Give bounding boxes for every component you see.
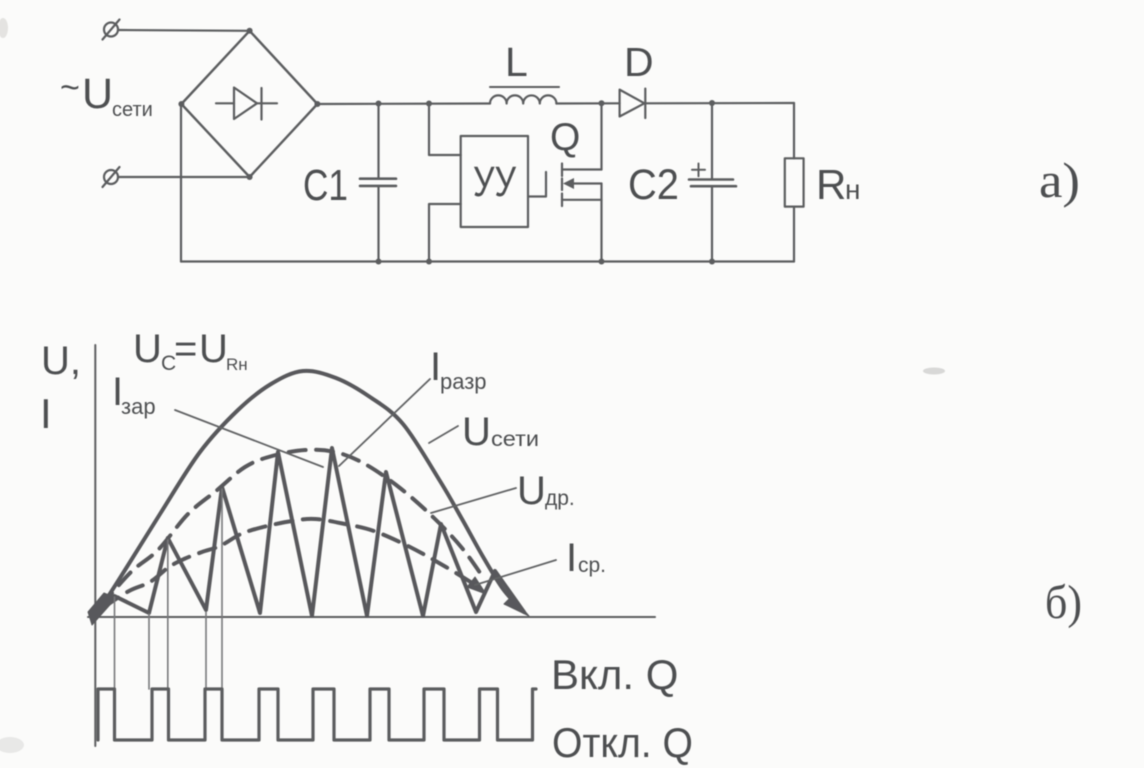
svg-text:U: U (517, 469, 546, 513)
circuit labels (60, 39, 1080, 210)
leader lines (175, 379, 556, 585)
wire right drop to Rn (793, 103, 795, 158)
thin timing lines (115, 489, 223, 689)
timing line t3 (167, 540, 169, 689)
svg-text:C1: C1 (303, 161, 348, 210)
timing line t2 (148, 614, 150, 689)
svg-text:Откл. Q: Откл. Q (552, 719, 693, 766)
curve Uдр dashed (101, 450, 485, 606)
axis t (88, 616, 655, 618)
wire Q source to bottom rail (600, 184, 602, 262)
node bridge top (247, 28, 253, 34)
svg-text:L: L (505, 39, 528, 85)
wire UU lower input (429, 204, 461, 262)
node Q drain rail (599, 100, 605, 106)
svg-text:U: U (199, 327, 228, 371)
leader Iср (475, 560, 556, 585)
node C1 top (376, 101, 382, 107)
node UU top rail (426, 101, 432, 107)
svg-text:C2: C2 (628, 161, 679, 209)
svg-text:Rн: Rн (226, 355, 248, 374)
timing line t4 (205, 612, 207, 689)
control unit UU box (461, 136, 528, 227)
wire UU gate output (528, 172, 546, 197)
wire Q drain to rail (600, 103, 602, 169)
square wave Q gate (98, 689, 536, 740)
inductor L core bar (490, 86, 559, 88)
inductor L coil (490, 95, 556, 103)
diode inside bridge (216, 88, 277, 120)
scan noise marks (0, 18, 945, 753)
wire top rail segment 3 (645, 102, 794, 105)
capacitor C2 (689, 103, 736, 262)
arrowhead envelope start (88, 593, 116, 625)
wire bottom input to bridge (118, 176, 250, 178)
svg-text:I: I (566, 536, 577, 580)
svg-text:а): а) (1039, 152, 1080, 208)
svg-text:др.: др. (545, 487, 575, 510)
timing line t5 (221, 489, 223, 689)
svg-text:I: I (40, 390, 52, 437)
terminal input bottom (103, 167, 120, 187)
wire bridge left leg down (180, 104, 182, 262)
wire bottom rail (181, 260, 794, 262)
wire UU upper input (429, 104, 461, 156)
node C1 bottom (376, 259, 382, 265)
leader Uсети (429, 426, 458, 443)
wire top input to bridge (118, 29, 250, 32)
svg-text:~: ~ (60, 69, 80, 107)
svg-text:Вкл. Q: Вкл. Q (551, 651, 678, 698)
svg-text:Q: Q (550, 116, 580, 159)
node UU bottom rail (426, 259, 432, 265)
wire top rail segment 2 (556, 102, 619, 104)
svg-text:сети: сети (112, 99, 153, 121)
svg-text:U,: U, (41, 339, 81, 383)
node bridge right (314, 101, 320, 107)
svg-text:U: U (462, 410, 491, 454)
svg-text:УУ: УУ (473, 158, 517, 206)
svg-text:н: н (845, 174, 860, 205)
curve Uсети envelope (97, 371, 522, 614)
svg-text:=: = (174, 327, 197, 371)
terminal input top (103, 20, 120, 40)
leader Uдр (431, 488, 516, 513)
svg-text:U: U (133, 327, 162, 371)
resistor Rn body (785, 158, 804, 206)
wire Rn to bottom rail (793, 207, 795, 262)
graph labels (40, 327, 1082, 766)
svg-text:б): б) (1045, 576, 1082, 629)
node bridge bottom (247, 174, 253, 180)
arrowhead envelope end (504, 596, 529, 616)
timing line t1 (114, 597, 116, 689)
arrowhead Iср end (467, 577, 486, 594)
curve Iср dashed (104, 519, 477, 607)
bridge rectifier VD (181, 31, 317, 177)
axis Y (94, 345, 96, 746)
svg-text:сети: сети (491, 428, 539, 451)
svg-text:ср.: ср. (578, 554, 606, 577)
svg-text:R: R (816, 161, 846, 208)
svg-text:D: D (624, 39, 654, 85)
transistor Q mosfet (562, 164, 602, 207)
node C2 top (709, 100, 715, 106)
node Q source rail (599, 259, 605, 265)
svg-text:U: U (82, 70, 113, 118)
sawtooth inductor current (97, 448, 524, 616)
wire top rail segment 1 (317, 102, 490, 105)
leader Iразр (339, 379, 430, 466)
leader Iзар (175, 410, 323, 467)
capacitor C1 (360, 104, 396, 262)
node C2 bottom (709, 259, 715, 265)
svg-text:разр: разр (440, 369, 487, 394)
diode D (620, 89, 646, 118)
node bridge left (178, 101, 184, 107)
svg-text:зар: зар (121, 394, 156, 419)
